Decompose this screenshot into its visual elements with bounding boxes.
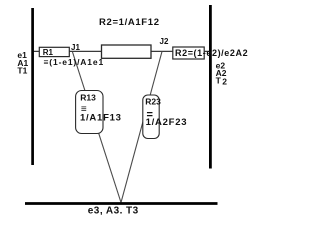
surface 2 plate xyxy=(209,5,212,169)
wire xyxy=(73,52,122,203)
svg-text:J2: J2 xyxy=(160,37,169,46)
svg-text:J1: J1 xyxy=(71,43,80,52)
resistor R23 xyxy=(143,95,159,139)
svg-text:T2: T2 xyxy=(216,76,228,87)
resistor R2 xyxy=(173,47,204,59)
svg-text:R1: R1 xyxy=(43,48,54,57)
svg-text:1/A1F13: 1/A1F13 xyxy=(80,113,122,124)
svg-text:≡(1-e1)/A1e1: ≡(1-e1)/A1e1 xyxy=(44,57,105,67)
svg-text:e3, A3. T3: e3, A3. T3 xyxy=(88,205,139,216)
svg-text:1/A2F23: 1/A2F23 xyxy=(146,117,188,128)
wire xyxy=(121,52,162,203)
resistor R1 xyxy=(39,47,69,56)
svg-text:R2=(1-e2)/e2A2: R2=(1-e2)/e2A2 xyxy=(175,48,248,58)
surface 3 plate xyxy=(25,202,218,205)
svg-text:R23: R23 xyxy=(145,97,161,107)
surface 1 plate xyxy=(31,8,34,165)
svg-text:R13: R13 xyxy=(80,93,96,103)
wire xyxy=(33,50,210,52)
svg-text:T1: T1 xyxy=(17,66,27,76)
resistor R12 xyxy=(102,45,152,58)
resistor R13 xyxy=(76,91,103,134)
svg-text:R2=1/A1F12: R2=1/A1F12 xyxy=(99,17,160,28)
